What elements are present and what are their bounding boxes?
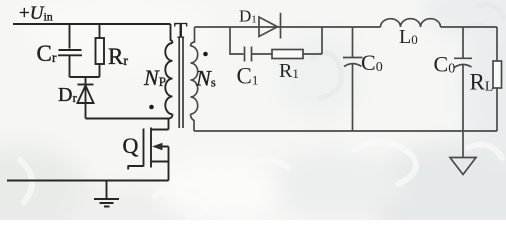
wire: snubber left node drop (230, 27, 244, 54)
wire: Rr top lead (99, 24, 101, 38)
capacitor Cr (58, 50, 82, 77)
transistor Q1 gate bar (143, 129, 145, 167)
wire: Rr bottom lead (99, 64, 101, 77)
transformer secondary winding Ns (191, 27, 195, 46)
resistor RL (493, 61, 502, 88)
wire: +Uin top rail (13, 23, 171, 25)
wire: secondary bottom rail (194, 130, 497, 132)
ground (triangle) (450, 158, 476, 175)
transistor Q1 source lead (151, 161, 169, 163)
capacitor C0 (second) (454, 57, 472, 59)
wire: secondary top rail (195, 26, 498, 28)
transistor Q1 bulk/source connection (156, 147, 169, 181)
capacitor C0 (first) (343, 57, 363, 59)
wire: ground stem (462, 131, 464, 158)
inductor L0 (381, 19, 441, 27)
svg-text:Q: Q (123, 133, 139, 158)
capacitor C1 (245, 47, 252, 62)
diode D1 (259, 17, 278, 37)
node: secondary dot (203, 52, 208, 57)
wire: RL top lead (496, 27, 498, 61)
diode Dr (78, 84, 94, 86)
transistor Q1 gate lead (128, 166, 144, 170)
svg-text:T: T (174, 18, 188, 43)
transformer primary winding Np (171, 24, 173, 43)
wire: C0 first bottom lead (352, 64, 354, 131)
wire: clamp to drain node (86, 118, 169, 120)
ground (earth) (94, 181, 119, 207)
MOSFET arrow (152, 143, 163, 151)
wire: C0 first top lead (352, 27, 354, 58)
wire: C0 second bottom lead (462, 65, 464, 132)
wire: Dr leads (85, 77, 87, 119)
transformer core (179, 37, 183, 129)
watermark strokes (20, 142, 502, 216)
wire: R1 to right node (303, 27, 322, 54)
node: primary dot (149, 105, 154, 110)
resistor R1 (272, 50, 303, 59)
wire: C1 to R1 (252, 53, 272, 55)
wire: source to ground rail (7, 180, 169, 182)
wire: RL bottom lead (496, 88, 498, 131)
resistor Rr (96, 38, 105, 64)
transistor Q1 channel bar (150, 128, 152, 168)
wire: snubber bottom loop (70, 76, 100, 78)
wire: Cr top lead (69, 24, 71, 49)
wire: C0 second top lead (462, 27, 464, 58)
transistor Q1 drain lead (151, 119, 169, 130)
